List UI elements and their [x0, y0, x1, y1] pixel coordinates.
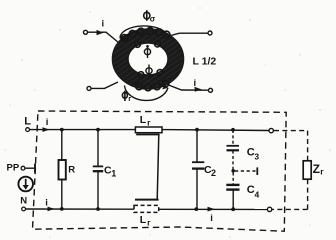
- junction C2 bottom: [194, 207, 198, 211]
- svg-text:Z: Z: [313, 162, 320, 176]
- load impedance Zr: [303, 161, 324, 179]
- svg-text:г: г: [147, 218, 151, 228]
- wire top-right: [167, 33, 208, 36]
- core bar over Lr bottom: [135, 199, 159, 201]
- capacitor C2: [192, 128, 216, 209]
- wire phase right: [162, 129, 269, 132]
- svg-text:4: 4: [255, 190, 260, 200]
- capacitor C1: [93, 130, 117, 209]
- label phi-r: [122, 91, 131, 103]
- svg-text:L 1/2: L 1/2: [193, 56, 217, 68]
- svg-text:N: N: [20, 195, 27, 206]
- output terminal top: [269, 128, 273, 132]
- capacitor C4: [226, 173, 259, 210]
- current arrow i phase: [43, 117, 50, 132]
- junction C4 bottom: [231, 207, 235, 211]
- wire bottom-left: [91, 82, 118, 88]
- return flux arc phi-r: [125, 84, 169, 100]
- svg-text:i: i: [210, 213, 213, 224]
- svg-text:г: г: [320, 167, 324, 177]
- current arrow i top-left: [97, 19, 105, 36]
- svg-text:г: г: [128, 94, 131, 103]
- resistor R: [59, 130, 76, 209]
- toroidal core L1/2: [112, 29, 183, 89]
- terminal top-right: [208, 31, 212, 35]
- svg-text:i: i: [45, 198, 48, 209]
- node N: [20, 195, 27, 211]
- node L: [24, 116, 31, 132]
- junction C1 bottom: [96, 207, 100, 211]
- dashed tap to the right: [235, 167, 257, 175]
- terminal top-left: [84, 30, 88, 34]
- inductor Lr bottom: [134, 205, 159, 227]
- svg-text:σ: σ: [150, 15, 156, 24]
- wire neutral bottom: [26, 208, 134, 210]
- dashed leads to load: [273, 131, 308, 210]
- capacitor C3: [227, 128, 260, 169]
- flux arrow phi lower window: [146, 65, 152, 79]
- svg-text:L: L: [140, 214, 147, 226]
- svg-text:г: г: [147, 118, 151, 128]
- current arrow i neutral right: [208, 207, 215, 224]
- top winding of L1/2: [121, 28, 170, 48]
- svg-text:i: i: [102, 19, 105, 30]
- svg-text:3: 3: [254, 151, 259, 161]
- current arrow i neutral left: [45, 198, 54, 212]
- svg-text:i: i: [46, 117, 49, 128]
- junction R top: [60, 128, 64, 132]
- wire bottom-right: [169, 85, 209, 90]
- svg-text:PP: PP: [7, 162, 20, 173]
- junction C1 top: [96, 128, 100, 132]
- svg-text:2: 2: [211, 168, 216, 178]
- svg-text:L: L: [24, 116, 31, 128]
- output terminal bottom: [267, 207, 271, 211]
- current arrow i bottom-right: [194, 78, 202, 92]
- node PP: [7, 162, 36, 173]
- wire top-left: [88, 32, 119, 42]
- terminal bottom-right: [209, 88, 213, 92]
- bottom winding of L1/2: [136, 70, 169, 91]
- core bar under Lr top: [136, 134, 159, 136]
- inductor Lr top: [135, 114, 162, 133]
- junction R bottom: [60, 207, 64, 211]
- node between C3 and C4: [231, 169, 235, 173]
- core coupling link: [157, 135, 159, 200]
- wire phase top: [30, 129, 136, 131]
- svg-text:L: L: [140, 114, 147, 126]
- terminal bottom-left: [87, 86, 91, 90]
- svg-text:1: 1: [111, 169, 116, 179]
- label phi-sigma: [144, 10, 156, 23]
- svg-text:R: R: [68, 165, 75, 176]
- leakage flux arc phi-sigma: [119, 26, 167, 41]
- surge source symbol: [18, 177, 33, 192]
- flux arrow phi upper window: [144, 45, 150, 58]
- dashed enclosure box: [33, 111, 287, 231]
- svg-text:i: i: [194, 78, 197, 89]
